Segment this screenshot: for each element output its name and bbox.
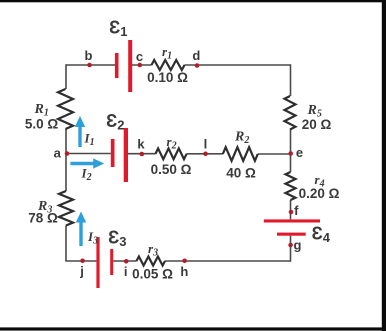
node k (140, 152, 145, 157)
svg-text:0.20 Ω: 0.20 Ω (299, 186, 340, 201)
node g (288, 243, 293, 248)
svg-text:5.0 Ω: 5.0 Ω (25, 116, 59, 131)
node l (203, 152, 208, 157)
resistor r2 (156, 148, 187, 159)
svg-text:0.05 Ω: 0.05 Ω (132, 266, 173, 281)
wire middle: battery E2 to resistor r2 (128, 153, 156, 155)
resistor r4 (286, 172, 296, 200)
wire bottom: left corner to battery E3 (65, 260, 96, 262)
node a (65, 151, 70, 156)
svg-text:a: a (54, 146, 62, 161)
wire right: top corner to R5 (290, 64, 292, 96)
wire bottom: resistor r3 to bottom-right corner (165, 260, 291, 262)
frame right edge (382, 0, 386, 331)
current arrow I3 (76, 212, 86, 247)
node i (124, 259, 129, 264)
svg-text:78 Ω: 78 Ω (28, 210, 58, 225)
battery E3 (96, 237, 113, 288)
wire left: top corner down to R1 (65, 64, 67, 89)
svg-text:j: j (79, 264, 84, 279)
wire right: R5 to r4 through node e (290, 130, 292, 173)
current arrow I1 (75, 116, 85, 147)
node c (138, 63, 143, 68)
battery E1 (115, 40, 132, 92)
wire middle: node a to battery E2 (66, 153, 111, 155)
svg-text:40 Ω: 40 Ω (226, 166, 256, 181)
current arrow I2 (70, 158, 104, 168)
node f (289, 210, 294, 215)
svg-text:f: f (294, 203, 299, 218)
wire top: battery E1 to resistor r1 (131, 64, 152, 66)
node d (195, 63, 200, 68)
svg-text:0.50 Ω: 0.50 Ω (151, 162, 192, 177)
wire right: r4 to battery E4 (290, 200, 292, 219)
wire top: left corner to battery E1 (66, 64, 115, 66)
svg-text:d: d (192, 48, 200, 63)
wire right: battery E4 to bottom corner (290, 236, 292, 262)
svg-text:k: k (137, 137, 145, 152)
resistor R3 (59, 191, 73, 226)
resistor r1 (152, 60, 185, 70)
svg-text:h: h (180, 264, 188, 279)
resistor r3 (137, 257, 166, 266)
wire bottom: battery E3 to resistor r3 (113, 260, 136, 262)
wire left: R1 to R3 through node a (65, 129, 67, 191)
svg-text:g: g (294, 238, 302, 253)
frame top edge (0, 0, 386, 2)
svg-text:e: e (296, 145, 303, 160)
node j (80, 259, 85, 264)
resistor R1 (58, 89, 73, 129)
wire middle: resistor R2 to node e (258, 153, 291, 155)
svg-text:20 Ω: 20 Ω (302, 117, 332, 132)
resistor R2 (223, 147, 258, 161)
svg-text:0.10 Ω: 0.10 Ω (147, 70, 188, 85)
node h (182, 259, 187, 264)
node b (87, 63, 92, 68)
resistor R5 (285, 96, 296, 130)
battery E2 (111, 128, 128, 182)
svg-text:l: l (204, 137, 208, 152)
svg-text:i: i (124, 264, 128, 279)
wire middle: resistor r2 to resistor R2 (187, 153, 223, 155)
svg-text:c: c (136, 49, 143, 64)
battery E4 (264, 219, 320, 235)
node e (288, 151, 293, 156)
frame bottom edge (0, 327, 386, 330)
wire top: resistor r1 to top-right corner (185, 64, 291, 66)
svg-text:b: b (85, 48, 93, 63)
wire left: R3 to bottom-left corner (65, 226, 67, 262)
